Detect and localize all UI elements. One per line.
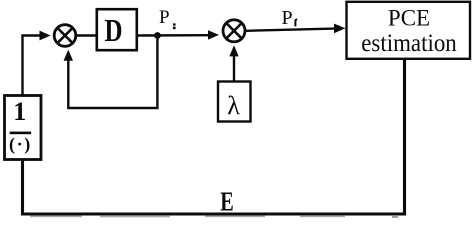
svg-text:P: P — [159, 7, 170, 28]
svg-text:estimation: estimation — [361, 30, 457, 57]
svg-text:E: E — [220, 187, 234, 217]
svg-text:PCE: PCE — [388, 6, 430, 31]
svg-text:1: 1 — [13, 97, 26, 126]
svg-text:P: P — [282, 7, 293, 29]
svg-text:λ: λ — [227, 91, 240, 120]
svg-text:(·): (·) — [9, 134, 32, 155]
svg-text:D: D — [105, 12, 123, 48]
